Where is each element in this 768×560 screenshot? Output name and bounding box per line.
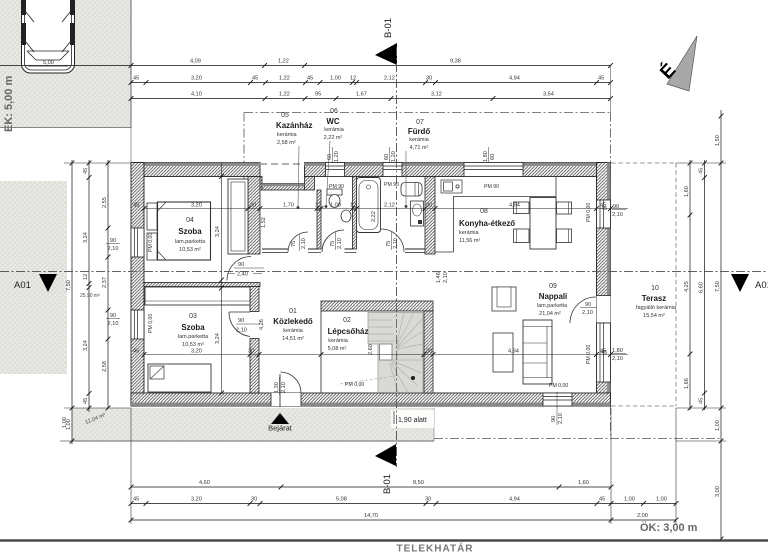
svg-text:45: 45 [252,76,258,82]
door arc furdo [381,229,404,252]
svg-text:30: 30 [426,349,432,355]
door arc entrance [281,372,302,393]
dining table [530,198,556,250]
svg-text:60: 60 [327,154,333,160]
wall exterior left [131,163,144,407]
svg-text:3,24: 3,24 [215,226,221,237]
svg-text:1,60: 1,60 [684,186,690,197]
wall interior room03-room04 [144,283,260,287]
svg-text:45: 45 [133,349,139,355]
svg-text:Konyha-étkező: Konyha-étkező [459,219,515,228]
coffee table nappali [493,333,513,372]
entrance pavement strip [72,408,434,441]
door label room04 90/2,40 [228,262,264,278]
svg-text:3,24: 3,24 [83,232,89,243]
label 1,90 alatt [391,410,434,428]
left dim column segments [83,160,91,412]
svg-text:1,00: 1,00 [330,76,341,82]
room label 04 Szoba [175,217,206,253]
svg-text:95: 95 [315,92,321,98]
svg-text:5,08 m²: 5,08 m² [328,346,347,352]
washbasin furdo [411,201,424,226]
svg-text:1,80: 1,80 [483,151,489,162]
svg-text:3,20: 3,20 [191,497,202,503]
svg-text:Fürdő: Fürdő [408,127,431,136]
svg-text:2,55: 2,55 [102,197,108,208]
svg-text:B-01: B-01 [383,18,394,38]
parking area hatched block top-left [0,0,131,128]
entrance opening bottom wall [271,393,301,406]
section marker A01 left [14,274,57,292]
top small window labels rotated [327,147,340,162]
window right wall nappali [597,323,611,382]
top dimension row 1 [0,59,613,68]
terrace door label 90/2,10 [580,302,597,316]
sofa nappali [523,320,552,384]
svg-text:lam.parketta: lam.parketta [178,334,209,340]
wall exterior top right segment [305,163,611,177]
window bottom wall nappali [543,393,572,406]
wall interior corridor west lower [250,339,259,394]
chair bottom-left [514,229,530,243]
room label 05 Kazanhaz [276,112,312,209]
wall south of kazanhaz with door opening [262,248,288,250]
wc toilet [327,189,342,208]
svg-text:2,10: 2,10 [612,356,623,362]
window label 90/2,10 room04 [106,238,120,252]
section line A01 overlay [0,271,768,273]
svg-text:45: 45 [133,203,139,209]
svg-text:60: 60 [384,154,390,160]
bottom extension lines [130,408,132,524]
plot setback dash-dot bottom [434,438,721,440]
svg-text:1,66: 1,66 [684,378,690,389]
svg-text:75: 75 [386,241,392,247]
svg-text:kerámia: kerámia [459,230,480,236]
svg-text:1,00: 1,00 [715,420,721,431]
door label wc 75/2,10 rotated [330,232,343,250]
room label 08 Konyha-etkezo [459,208,515,244]
svg-text:90: 90 [551,416,557,422]
plot setback dash-dot boundary left vertical [243,113,245,191]
svg-text:4,09: 4,09 [190,59,201,65]
svg-text:45: 45 [83,398,89,404]
window top wall wc small [326,163,345,177]
right dim column terrace segments [684,160,692,410]
section marker A01 right [731,274,768,292]
door arc nappali terrace [570,297,596,323]
svg-text:12: 12 [83,274,89,280]
svg-text:Szoba: Szoba [181,323,205,332]
svg-text:PM 0,00: PM 0,00 [586,203,592,222]
svg-text:90: 90 [238,318,244,324]
svg-text:2,10: 2,10 [236,328,247,334]
svg-text:PM 0,00: PM 0,00 [148,314,154,333]
svg-text:PM 0,00: PM 0,00 [549,383,568,389]
svg-text:30: 30 [425,497,431,503]
svg-text:8,50: 8,50 [413,480,424,486]
svg-text:06: 06 [330,108,338,115]
svg-text:kerámia: kerámia [283,328,304,334]
label 1,46 2,10 rotated kitchen [436,272,449,283]
svg-text:2,40: 2,40 [237,272,248,278]
svg-text:60: 60 [490,154,496,160]
chair top-left [514,202,530,214]
svg-text:1,22: 1,22 [279,92,290,98]
svg-text:1,50: 1,50 [715,135,721,146]
bottom window label 90/2,10 rotated [551,392,564,425]
kitchen counter [435,177,556,252]
svg-text:07: 07 [416,119,424,126]
room label 03 Szoba [178,313,209,348]
left dim column window chain [102,160,110,410]
svg-text:1,46: 1,46 [436,272,442,283]
svg-text:4,25: 4,25 [684,281,690,292]
kitchen window right label 45 90/2,10 [601,204,626,218]
svg-text:4,94: 4,94 [509,76,520,82]
svg-text:3,64: 3,64 [543,92,554,98]
svg-text:1,00: 1,00 [330,203,341,209]
svg-text:2,37: 2,37 [102,277,108,288]
svg-text:30: 30 [426,203,432,209]
section line B-01 vertical [396,47,398,467]
svg-text:lam.parketta: lam.parketta [175,239,206,245]
wall hallway south / stair north [321,301,433,311]
svg-text:PM 0,00: PM 0,00 [148,233,154,252]
wall interior kazanhaz east [317,190,321,249]
svg-text:4,10: 4,10 [191,92,202,98]
svg-text:1,70: 1,70 [283,203,294,209]
svg-text:Kazánház: Kazánház [276,121,312,130]
wc sink [341,210,351,222]
window top wall kitchen [464,163,523,177]
svg-text:3,00: 3,00 [715,486,721,497]
right extension lines [676,162,726,164]
svg-text:90: 90 [585,302,591,308]
svg-text:45: 45 [598,76,604,82]
svg-text:30: 30 [250,203,256,209]
svg-text:ÖK: 3,00 m: ÖK: 3,00 m [640,521,698,534]
svg-text:1,60: 1,60 [578,480,589,486]
wall interior room04 east [248,177,260,255]
svg-text:90: 90 [613,204,619,210]
svg-text:7,50: 7,50 [715,281,721,292]
garden hatched block left [0,181,67,374]
chair bottom-right [557,229,572,243]
svg-text:21,04 m²: 21,04 m² [539,311,561,317]
room label 06 WC [324,108,345,208]
chair top-right [557,202,572,214]
stair walk line [340,340,399,384]
wall exterior bottom [131,393,611,406]
right dim column building 6,60 [699,160,707,410]
svg-text:9,38: 9,38 [450,59,461,65]
svg-text:kerámia: kerámia [409,137,430,143]
wall interior wc-furdo partition [353,177,357,250]
svg-text:WC: WC [326,117,339,126]
svg-text:1,22: 1,22 [278,59,289,65]
svg-text:10,53 m²: 10,53 m² [182,342,204,348]
svg-text:2,10: 2,10 [337,238,343,249]
svg-text:4,94: 4,94 [509,497,520,503]
svg-text:PM 90: PM 90 [329,184,344,190]
extension line building corner left top [130,128,132,163]
svg-text:Bejárat: Bejárat [268,424,293,433]
svg-text:2,22: 2,22 [371,211,377,222]
svg-text:1,22: 1,22 [279,76,290,82]
kitchen sink [441,180,462,193]
door arc room 03 [229,312,250,337]
facade dashed line across recess [260,163,305,165]
svg-text:10: 10 [651,285,659,292]
svg-text:1,67: 1,67 [356,92,367,98]
svg-text:2,10: 2,10 [443,272,449,283]
svg-text:4,71 m²: 4,71 m² [410,145,429,151]
room label 10 Terasz [636,285,677,319]
svg-text:2,10: 2,10 [582,310,593,316]
stair west boundary line [320,311,322,393]
plot setback dash-dot boundary top [244,112,611,114]
window right wall kitchen [597,200,611,228]
top dimension row 2 [129,76,613,85]
svg-text:25,90 m²: 25,90 m² [80,293,100,299]
svg-text:2,60: 2,60 [368,344,374,355]
bottom dimension row 2 [129,497,679,506]
svg-text:Lépcsőház: Lépcsőház [328,327,369,336]
window left wall room 03 [131,310,144,339]
svg-text:4,60: 4,60 [199,480,210,486]
section marker B-01 top [375,18,397,65]
svg-text:12: 12 [350,76,356,82]
svg-text:30: 30 [251,497,257,503]
door opening right wall nappali terrace [597,296,611,324]
door arc room 04 [227,257,251,281]
svg-text:4,94: 4,94 [508,349,519,355]
door label room03 90/2,10 [236,318,260,334]
terrace dashed outline [611,163,676,406]
svg-text:90: 90 [110,238,116,244]
svg-text:5,08: 5,08 [336,497,347,503]
svg-text:75: 75 [330,241,336,247]
left dim column total 7,50 [66,160,74,444]
top dimension row 3 [129,92,613,101]
wall stub lines south wc [345,252,357,254]
washer furdo [401,183,422,197]
svg-text:1,90 alatt: 1,90 alatt [398,417,427,424]
car top view in parking [22,0,75,73]
svg-text:11,56 m²: 11,56 m² [459,238,480,244]
svg-text:45: 45 [601,350,607,356]
wardrobe room 03 [145,287,250,305]
svg-text:75: 75 [291,241,297,247]
svg-text:30: 30 [248,349,254,355]
svg-text:1,30: 1,30 [274,382,280,393]
svg-text:45: 45 [699,398,705,404]
window top wall furdo small [383,163,402,177]
svg-text:45: 45 [599,497,605,503]
door arc wc [322,230,344,252]
wall recess jamb left [250,177,262,191]
svg-text:kerámia: kerámia [324,127,345,133]
svg-text:EK: 5,00 m: EK: 5,00 m [3,76,15,132]
svg-text:2,58 m²: 2,58 m² [277,140,296,146]
north arrow [656,36,697,91]
left extension lines [64,162,131,164]
wall stub south kazanhaz right [308,248,317,250]
svg-text:05: 05 [281,112,289,119]
bottom dimension row 1 [129,480,614,489]
svg-text:2,10: 2,10 [393,238,399,249]
svg-text:08: 08 [480,208,488,215]
svg-text:2,12: 2,12 [384,203,395,209]
svg-text:Szoba: Szoba [178,227,202,236]
svg-text:1,20: 1,20 [334,151,340,162]
svg-text:45: 45 [601,206,607,212]
interior vertical dimension line x221 [215,163,224,395]
svg-text:2,12: 2,12 [384,76,395,82]
room label 07 Furdo [405,119,431,208]
svg-text:3,24: 3,24 [215,333,221,344]
svg-text:1,00: 1,00 [624,497,635,503]
entrance label 1,30/2,10 rotated [274,377,287,395]
svg-text:A01: A01 [14,280,31,291]
svg-text:2,10: 2,10 [281,382,287,393]
section marker B-01 bottom [375,444,396,494]
svg-text:3,20: 3,20 [191,203,202,209]
wall south of furdo [405,248,425,250]
svg-text:90: 90 [238,262,244,268]
door label furdo 75/2,10 rotated [386,232,399,250]
wall exterior right [597,163,611,407]
svg-text:7,50: 7,50 [66,280,72,291]
wall recess jamb right [305,177,315,191]
svg-text:3,24: 3,24 [83,340,89,351]
svg-text:Közlekedő: Közlekedő [273,317,313,326]
right dim column plot 7,50 [715,110,723,541]
svg-text:12: 12 [350,203,356,209]
interior dimension line lower y354 [142,349,628,357]
svg-text:kerámia: kerámia [328,338,349,344]
svg-text:4,94: 4,94 [509,203,520,209]
svg-text:PM 0,00: PM 0,00 [345,382,364,388]
svg-text:03: 03 [189,313,197,320]
wall interior corridor west upper [250,287,259,312]
svg-text:09: 09 [549,283,557,290]
wall interior furdo-kitchen [425,177,435,255]
svg-text:14,70: 14,70 [364,513,378,519]
svg-text:1,00: 1,00 [62,417,68,428]
svg-text:kerámia: kerámia [277,132,298,138]
svg-text:15,54 m²: 15,54 m² [643,313,665,319]
staircase gray block [368,313,423,393]
door arc kazanhaz [288,232,308,252]
wall kazanhaz front thin [262,184,305,191]
svg-text:Nappali: Nappali [539,292,568,301]
bed room 04 [147,202,211,260]
bathtub furdo [357,178,381,233]
svg-text:45: 45 [699,168,705,174]
svg-text:1,52: 1,52 [261,217,267,228]
svg-text:14,51 m²: 14,51 m² [282,336,304,342]
section line B-01 overlay [396,47,398,467]
svg-text:45: 45 [83,168,89,174]
svg-text:10,53 m²: 10,53 m² [179,247,201,253]
extension line building corner right top [610,66,612,113]
plot setback dash-dot right short [610,113,612,163]
svg-text:3,12: 3,12 [431,92,442,98]
svg-text:A01: A01 [755,280,768,291]
wall stair east [424,311,433,393]
svg-text:Terasz: Terasz [642,294,666,303]
svg-text:2,10: 2,10 [108,321,119,327]
svg-text:1,80: 1,80 [612,348,623,354]
svg-text:4,26: 4,26 [259,319,265,330]
svg-text:45: 45 [307,76,313,82]
svg-text:01: 01 [289,308,297,315]
svg-text:2,10: 2,10 [612,212,623,218]
entrance marker triangle [271,413,289,424]
wall stub lines south furdo [405,252,425,254]
svg-text:30: 30 [426,76,432,82]
nappali window right label 45 1,80/2,10 [601,348,626,362]
room label 02 Lepcsohaz [328,317,369,352]
svg-text:12: 12 [315,203,321,209]
window label 90/2,10 room03 [106,313,120,327]
svg-text:2,10: 2,10 [108,246,119,252]
armchair nappali [492,287,516,311]
bottom dimension row 3 [129,513,679,522]
svg-text:90: 90 [110,313,116,319]
svg-text:fagyálló kerámia: fagyálló kerámia [636,305,677,311]
svg-text:lam.parketta: lam.parketta [537,303,568,309]
window left wall room 04 [131,228,144,257]
interior dimension line upper y208 [142,203,628,211]
bed room 03 [148,364,211,392]
svg-text:3,20: 3,20 [191,76,202,82]
wardrobe room 04 [228,179,248,254]
svg-text:B-01: B-01 [382,474,393,494]
door label kazanhaz 75/2,10 rotated [291,234,307,251]
svg-text:45: 45 [133,76,139,82]
svg-text:PM 90: PM 90 [484,184,499,190]
svg-text:2,22 m²: 2,22 m² [324,135,343,141]
svg-text:3,20: 3,20 [191,349,202,355]
room label 09 Nappali [537,283,568,317]
plot boundary vertical right [610,406,612,439]
svg-text:2,00: 2,00 [637,513,648,519]
section line A01 horizontal [0,271,768,273]
svg-text:5,00: 5,00 [43,60,54,66]
telekhatar boundary line [0,539,768,542]
svg-text:02: 02 [343,317,351,324]
svg-text:6,60: 6,60 [699,282,705,293]
svg-text:45: 45 [133,497,139,503]
svg-text:TELEKHATÁR: TELEKHATÁR [396,542,473,555]
svg-text:1,00: 1,00 [656,497,667,503]
room label 01 Kozlekedo [273,308,313,342]
svg-text:2,10: 2,10 [558,413,564,424]
svg-text:04: 04 [186,217,194,224]
wall exterior top left segment [131,163,260,177]
wall south of wc [345,248,353,250]
svg-text:2,58: 2,58 [102,361,108,372]
svg-text:2,10: 2,10 [301,238,307,249]
